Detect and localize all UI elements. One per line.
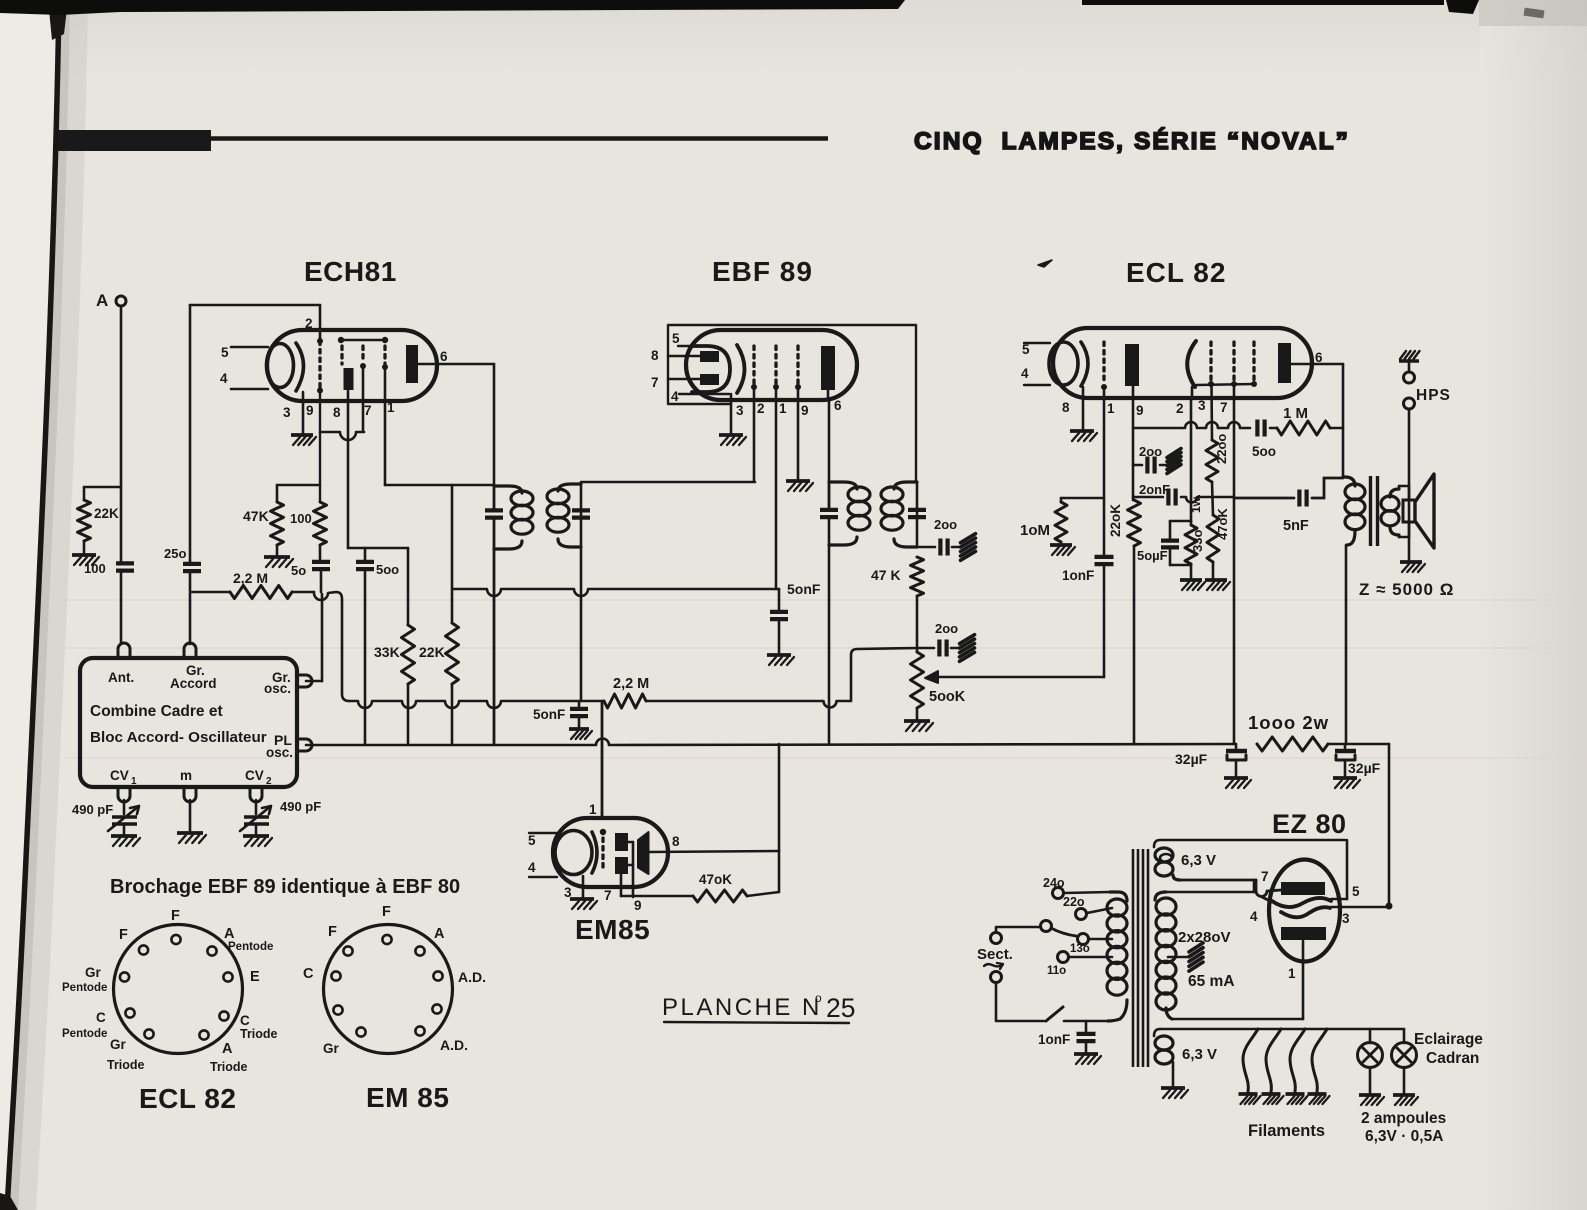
svg-text:3: 3 bbox=[1198, 398, 1206, 413]
capacitor 32µF (input) bbox=[1175, 744, 1247, 776]
antenna wire down bbox=[120, 306, 123, 564]
resistor 22K (osc grid leak) bbox=[419, 485, 459, 744]
tube EM85 label big bbox=[575, 914, 650, 945]
filament lead 4 bbox=[1312, 1029, 1327, 1092]
svg-text:2 ampoules: 2 ampoules bbox=[1361, 1110, 1446, 1127]
socket EM85 pins bbox=[331, 935, 442, 1037]
ECL82 pin 9 wire bbox=[1133, 386, 1144, 500]
svg-text:Cadran: Cadran bbox=[1426, 1050, 1479, 1067]
feedback line with caps 500 and 1M bbox=[1133, 422, 1250, 428]
ground below 22K bbox=[72, 555, 99, 565]
svg-text:E: E bbox=[250, 969, 260, 985]
wire 470K to node bbox=[747, 851, 779, 896]
svg-text:5oµF: 5oµF bbox=[1137, 548, 1168, 563]
svg-text:3: 3 bbox=[283, 405, 291, 420]
tap 110 bbox=[1047, 952, 1112, 978]
svg-text:25o: 25o bbox=[164, 546, 186, 561]
svg-text:22oo: 22oo bbox=[1214, 434, 1229, 464]
svg-text:1: 1 bbox=[779, 401, 787, 416]
resistor 470K (EM85) bbox=[693, 872, 747, 902]
svg-text:22K: 22K bbox=[419, 644, 445, 660]
ground filament 4 bbox=[1308, 1094, 1330, 1104]
EM85 pin 3 cathode wire bbox=[564, 876, 583, 900]
svg-text:1: 1 bbox=[1107, 401, 1115, 416]
tube EZ80 envelope bbox=[1269, 860, 1340, 962]
capacitor 1onF (coupling) bbox=[1062, 557, 1114, 677]
hatched ground 200 ECL82 bbox=[1167, 449, 1181, 474]
EZ80 pin 3 wire bbox=[1330, 907, 1389, 926]
svg-text:CV: CV bbox=[245, 768, 264, 783]
resistor 1000 2W bbox=[1248, 712, 1329, 751]
wire Gr osc to oscillator grid line bbox=[306, 594, 322, 681]
svg-text:32µF: 32µF bbox=[1175, 751, 1208, 767]
EM85 pin 4 stub bbox=[528, 860, 557, 877]
wire HT top to EZ80 plate bbox=[1166, 880, 1254, 892]
svg-text:5oo: 5oo bbox=[376, 562, 399, 577]
svg-text:5onF: 5onF bbox=[533, 707, 565, 722]
capacitor 500 (osc anode) bbox=[356, 548, 399, 744]
ECH81 grid g4 (pin1) bbox=[382, 346, 388, 370]
resistor 22K (antenna) bbox=[78, 487, 122, 553]
block terminal CV1 bbox=[118, 787, 130, 802]
wire IFT2 primary to B+ bus bbox=[828, 545, 831, 744]
ground below 5onF det bbox=[569, 729, 592, 739]
potentiometer 500K bbox=[911, 640, 966, 708]
trimmer 490pF at CV1 bbox=[72, 800, 139, 834]
wire 6,3V to EZ80 filament bbox=[1180, 880, 1281, 902]
svg-text:2oo: 2oo bbox=[934, 517, 957, 532]
svg-text:5oo: 5oo bbox=[1252, 444, 1276, 459]
capacitor 100 (antenna) bbox=[84, 561, 134, 644]
tap 240 bbox=[1043, 876, 1110, 899]
ECL82 triode anode plate bbox=[1125, 344, 1139, 386]
svg-text:7: 7 bbox=[604, 888, 612, 903]
svg-text:EM85: EM85 bbox=[575, 914, 650, 945]
block terminal CV2 bbox=[250, 787, 262, 802]
EM85 target wedge bbox=[638, 832, 680, 874]
ECL82 triode cathode bbox=[1049, 342, 1088, 386]
AVC bus right segment (grid line) bbox=[453, 589, 779, 596]
svg-text:2: 2 bbox=[305, 316, 313, 331]
svg-text:8: 8 bbox=[333, 405, 341, 420]
svg-text:9: 9 bbox=[306, 403, 314, 418]
ground at ECH81 pin 3 bbox=[291, 435, 316, 445]
output transformer core bbox=[1371, 476, 1378, 546]
svg-text:3: 3 bbox=[1342, 911, 1350, 926]
EBF89 pin 1 wire (AVC) bbox=[776, 387, 787, 589]
ECH81 cathode bbox=[267, 343, 304, 391]
ECH81 pin 8 wire down bbox=[333, 391, 348, 548]
IF transformer 2 secondary coil bbox=[881, 482, 917, 547]
HT winding 2x280V bbox=[1155, 892, 1231, 1019]
block terminal Gr osc bbox=[297, 675, 312, 687]
AVC bus 2 right of 2,2M bbox=[647, 648, 917, 707]
EZ80 pin 1 wire bbox=[1288, 941, 1303, 1019]
svg-text:F: F bbox=[119, 927, 128, 943]
filament lead 1 bbox=[1243, 1029, 1258, 1092]
EBF89 pin 9 wire bbox=[798, 387, 809, 479]
svg-text:4: 4 bbox=[220, 371, 228, 386]
wire 2,2M to EM85 grid with hop bbox=[601, 701, 604, 818]
ECL82 pin 7 wire (screen) bbox=[1220, 384, 1234, 744]
svg-text:5ooK: 5ooK bbox=[929, 689, 966, 705]
ECH81 pin 6 wire to osc coil bbox=[418, 349, 494, 486]
ground below speaker bbox=[1400, 562, 1425, 572]
capacitor 5nF bbox=[1234, 478, 1343, 534]
svg-text:Sect.: Sect. bbox=[977, 946, 1013, 963]
svg-text:6: 6 bbox=[440, 349, 448, 364]
svg-text:33K: 33K bbox=[374, 644, 400, 660]
capacitor 32µF (output) bbox=[1335, 744, 1381, 776]
ECH81 pin 9 label bbox=[306, 403, 314, 418]
tube EBF89 envelope bbox=[686, 330, 857, 400]
wire osc secondary right bbox=[580, 484, 583, 701]
svg-text:1: 1 bbox=[131, 776, 137, 787]
resistor 2200 bbox=[1206, 434, 1229, 482]
label Filaments bbox=[1248, 1122, 1325, 1140]
svg-text:F: F bbox=[382, 904, 391, 920]
label ECL 82 socket bbox=[139, 1083, 236, 1114]
ground lamp 2 bbox=[1393, 1095, 1418, 1105]
resistor 470K (screen divider) bbox=[1207, 482, 1230, 578]
label Eclairage Cadran bbox=[1414, 1031, 1483, 1067]
ECH81 pin 2 wire bbox=[190, 305, 320, 339]
svg-text:C: C bbox=[96, 1010, 106, 1025]
svg-text:1 M: 1 M bbox=[1283, 405, 1308, 422]
IF transformer 2 secondary cap bbox=[908, 482, 926, 547]
tube ECH81 envelope bbox=[267, 330, 437, 401]
capacitor 5o bbox=[291, 562, 330, 592]
svg-text:CV: CV bbox=[110, 768, 129, 783]
svg-text:PLANCHE N: PLANCHE N bbox=[662, 994, 822, 1021]
trimmer 490pF at CV2 bbox=[240, 799, 321, 834]
capacitor 250 bbox=[164, 546, 201, 644]
mains switch bbox=[996, 983, 1108, 1021]
ground below mains cap bbox=[1074, 1054, 1101, 1064]
speaker voice coil bbox=[1399, 486, 1415, 537]
ground below 6,3V winding bbox=[1161, 1088, 1188, 1098]
EZ80 pin 7 label bbox=[1261, 869, 1269, 884]
tube EBF89 label bbox=[712, 256, 813, 287]
ECL82 pentode grid g1 bbox=[1208, 342, 1214, 387]
output transformer primary bbox=[1343, 477, 1365, 744]
svg-text:m: m bbox=[180, 768, 192, 783]
capacitor 5onF (AVC) bbox=[770, 581, 821, 653]
svg-text:Gr: Gr bbox=[323, 1041, 340, 1056]
EM85 anode plates bbox=[615, 833, 628, 874]
EM85 pin 5 stub bbox=[528, 833, 557, 848]
EZ80 anode plate 2 bbox=[1281, 927, 1326, 940]
title CINQ LAMPES SERIE NOVAL bbox=[914, 127, 1350, 155]
block labels bbox=[90, 663, 293, 787]
svg-text:HPS: HPS bbox=[1416, 387, 1451, 404]
tube EZ80 label bbox=[1272, 809, 1347, 839]
potentiometer wiper arrow bbox=[925, 671, 1104, 683]
svg-text:4: 4 bbox=[528, 860, 536, 875]
svg-text:100: 100 bbox=[290, 511, 312, 526]
ground below 47K bbox=[264, 557, 293, 567]
svg-text:A: A bbox=[222, 1041, 233, 1057]
ground below 32µF input bbox=[1224, 778, 1251, 788]
svg-text:5onF: 5onF bbox=[787, 581, 821, 597]
svg-text:490 pF: 490 pF bbox=[280, 799, 321, 814]
socket ECL82 pin labels bbox=[62, 908, 278, 1074]
svg-text:9: 9 bbox=[1136, 403, 1144, 418]
resistor 100 (osc grid) bbox=[290, 390, 327, 561]
ECL82 pin 4 stub bbox=[1021, 366, 1050, 385]
svg-text:A.D.: A.D. bbox=[458, 969, 486, 985]
output transformer secondary bbox=[1381, 486, 1399, 537]
svg-text:33o: 33o bbox=[1190, 530, 1205, 552]
ground below 500K bbox=[904, 708, 933, 731]
ECH81 grid g3 (pin7) bbox=[360, 346, 366, 369]
ground below 32µF output bbox=[1333, 778, 1360, 788]
ECH81 pin 4 stub bbox=[220, 371, 268, 389]
HPS terminals bbox=[1404, 361, 1451, 409]
ground below CV2 bbox=[243, 836, 272, 846]
svg-text:1onF: 1onF bbox=[1038, 1032, 1070, 1047]
svg-text:8: 8 bbox=[672, 834, 680, 849]
EM85 plates bracket to pin 9 bbox=[628, 842, 642, 913]
svg-text:Pentode: Pentode bbox=[62, 1028, 107, 1040]
ECL82 pentode grid g3 bbox=[1251, 342, 1257, 387]
svg-text:osc.: osc. bbox=[266, 745, 293, 760]
ECH81 grid top strap bbox=[338, 337, 388, 343]
svg-text:2,2 M: 2,2 M bbox=[233, 570, 268, 586]
svg-text:o: o bbox=[815, 991, 822, 1005]
svg-text:1: 1 bbox=[589, 802, 597, 817]
label 2 ampoules bbox=[1361, 1110, 1446, 1145]
svg-text:5nF: 5nF bbox=[1283, 518, 1309, 534]
svg-text:Pentode: Pentode bbox=[228, 941, 273, 953]
osc transformer primary coil bbox=[494, 486, 533, 549]
svg-text:Combine Cadre et: Combine Cadre et bbox=[90, 703, 223, 720]
socket ECL82 circle bbox=[114, 925, 243, 1054]
resistor 33K bbox=[374, 548, 415, 744]
svg-text:13o: 13o bbox=[1070, 943, 1090, 955]
resistor 22oK bbox=[1108, 500, 1141, 744]
svg-text:6,3V · 0,5A: 6,3V · 0,5A bbox=[1365, 1128, 1443, 1145]
svg-text:8: 8 bbox=[1062, 400, 1070, 415]
svg-text:A: A bbox=[224, 926, 235, 942]
svg-text:ECH81: ECH81 bbox=[304, 256, 397, 287]
ground below 5onF AVC bbox=[767, 655, 794, 665]
svg-text:1onF: 1onF bbox=[1062, 568, 1094, 583]
ground below 1oM bbox=[1050, 545, 1075, 555]
svg-text:A: A bbox=[96, 291, 108, 310]
tube ECH81 label bbox=[304, 256, 397, 287]
resistor 1M bbox=[1277, 405, 1343, 435]
svg-text:9: 9 bbox=[801, 403, 809, 418]
EBF89 grid g2 bbox=[773, 346, 779, 390]
svg-text:EM 85: EM 85 bbox=[366, 1082, 449, 1113]
resistor 1oM bbox=[1020, 498, 1104, 542]
svg-text:ECL 82: ECL 82 bbox=[139, 1083, 236, 1114]
wire pin8 jog bbox=[348, 547, 408, 550]
ECH81 pin 5 stub bbox=[221, 345, 268, 360]
Sect terminal upper bbox=[977, 927, 1040, 963]
mains primary winding bbox=[1107, 892, 1127, 1021]
ECH81 triode anode plate bbox=[406, 345, 418, 383]
ECL82 pentode cathode arc bbox=[1187, 341, 1196, 387]
wire pin7 to 470K bbox=[621, 895, 693, 898]
block terminal m bbox=[184, 787, 196, 802]
svg-text:4: 4 bbox=[671, 389, 679, 404]
header rule bar bbox=[58, 130, 828, 151]
B+ wire right segment bbox=[1328, 744, 1393, 910]
ground below 470K bbox=[1205, 580, 1230, 590]
svg-text:Z ≈ 5000 Ω: Z ≈ 5000 Ω bbox=[1359, 580, 1454, 599]
ECL82 pin 2 wire bbox=[1176, 387, 1192, 521]
svg-text:5o: 5o bbox=[291, 563, 306, 578]
osc transformer secondary cap bbox=[572, 510, 590, 517]
svg-text:1oM: 1oM bbox=[1020, 522, 1050, 539]
ECH81 pin 1 wire bbox=[385, 368, 494, 485]
svg-text:3: 3 bbox=[736, 403, 744, 418]
svg-text:Eclairage: Eclairage bbox=[1414, 1031, 1483, 1048]
osc transformer secondary coil bbox=[547, 484, 581, 547]
svg-text:F: F bbox=[328, 924, 337, 940]
svg-text:Brochage EBF 89 identique à EB: Brochage EBF 89 identique à EBF 80 bbox=[110, 876, 460, 898]
block terminal PL osc bbox=[297, 739, 312, 751]
ECL82 pin 5 stub bbox=[1022, 342, 1050, 357]
ECL82 pin 1 wire bbox=[1104, 387, 1115, 556]
ground at EBF89 pin 9 bbox=[786, 481, 813, 491]
svg-text:F: F bbox=[171, 908, 180, 924]
svg-text:2oo: 2oo bbox=[1139, 444, 1162, 459]
tube ECL82 label bbox=[1126, 257, 1226, 288]
filament lead 2 bbox=[1266, 1029, 1281, 1092]
svg-text:8: 8 bbox=[651, 348, 659, 363]
svg-text:65 mA: 65 mA bbox=[1188, 973, 1235, 990]
EBF89 pin 6 wire down bbox=[828, 390, 829, 507]
speaker cone bbox=[1415, 474, 1434, 548]
label Z = 5000 ohms bbox=[1359, 580, 1454, 599]
svg-text:22oK: 22oK bbox=[1108, 504, 1123, 537]
svg-text:Pentode: Pentode bbox=[62, 982, 107, 994]
svg-text:EBF 89: EBF 89 bbox=[712, 256, 813, 287]
svg-text:7: 7 bbox=[1261, 869, 1269, 884]
tap 220 bbox=[1063, 895, 1112, 920]
ECL82 pentode grid g2 bbox=[1231, 342, 1237, 387]
wire HT bottom to EZ80 pin 1 bbox=[1172, 1018, 1303, 1021]
svg-text:1ooo 2w: 1ooo 2w bbox=[1248, 712, 1329, 733]
svg-text:22K: 22K bbox=[94, 506, 119, 521]
ECH81 heptode anode plate bbox=[344, 368, 354, 390]
ECL82 pin 6 anode wire bbox=[1291, 364, 1343, 477]
ground filament 3 bbox=[1286, 1094, 1308, 1104]
filament lead 3 bbox=[1290, 1029, 1305, 1092]
EM85 grid (pin 1) bbox=[589, 802, 606, 871]
svg-text:22o: 22o bbox=[1063, 895, 1085, 909]
EM85 cathode bbox=[555, 831, 597, 875]
svg-text:1: 1 bbox=[1288, 966, 1296, 981]
svg-text:5: 5 bbox=[1022, 342, 1030, 357]
svg-text:Filaments: Filaments bbox=[1248, 1122, 1325, 1140]
capacitor 500 (feedback) bbox=[1252, 420, 1277, 460]
svg-text:5: 5 bbox=[528, 833, 536, 848]
stray ink mark bbox=[1038, 260, 1052, 267]
wire node to B+ bus bbox=[778, 744, 781, 851]
svg-text:11o: 11o bbox=[1047, 965, 1066, 977]
svg-text:C: C bbox=[303, 966, 314, 982]
svg-text:EZ 80: EZ 80 bbox=[1272, 809, 1347, 839]
svg-text:47 K: 47 K bbox=[871, 567, 901, 583]
svg-text:9: 9 bbox=[634, 898, 642, 913]
svg-text:Gr: Gr bbox=[85, 965, 102, 980]
socket ECL82 pins bbox=[120, 935, 233, 1040]
svg-text:6,3 V: 6,3 V bbox=[1182, 1046, 1217, 1063]
block terminal Gr Accord bbox=[184, 643, 196, 658]
svg-text:2: 2 bbox=[1176, 401, 1184, 416]
resistor 47K (detector) bbox=[871, 557, 924, 640]
resistor 47K (osc) bbox=[243, 485, 320, 555]
ECL82 pentode anode plate bbox=[1278, 343, 1323, 383]
svg-text:ECL 82: ECL 82 bbox=[1126, 257, 1226, 288]
IF transformer 2 primary coil bbox=[829, 482, 870, 545]
svg-text:7: 7 bbox=[651, 375, 659, 390]
HPS wire to ground bbox=[1408, 409, 1411, 560]
EM85 target wire bbox=[649, 851, 779, 852]
wire m to ground bbox=[189, 800, 192, 831]
HT center tap hatched ground bbox=[1168, 943, 1235, 990]
EZ80 filament arcs bbox=[1272, 898, 1331, 917]
EZ80 pin 4 label bbox=[1250, 909, 1258, 924]
capacitor 200 (triode anode) with ground bbox=[1133, 444, 1166, 474]
ground filament 2 bbox=[1262, 1094, 1284, 1104]
resistor 2,2M (AVC left) bbox=[192, 570, 292, 599]
capacitor 1onF (mains) bbox=[1038, 1021, 1096, 1052]
svg-text:5: 5 bbox=[1352, 884, 1360, 899]
svg-text:Triode: Triode bbox=[240, 1027, 278, 1041]
ground lamp 1 bbox=[1359, 1095, 1384, 1105]
wire grid line to EBF89 pin2 bbox=[581, 481, 755, 484]
EBF89 pin 2 wire bbox=[754, 387, 765, 481]
svg-text:2,2 M: 2,2 M bbox=[613, 676, 649, 692]
label EM 85 socket bbox=[366, 1082, 449, 1113]
svg-text:4: 4 bbox=[1021, 366, 1029, 381]
svg-text:Triode: Triode bbox=[107, 1058, 145, 1072]
svg-text:2oo: 2oo bbox=[935, 621, 958, 636]
dial lamp 1 bbox=[1358, 1029, 1383, 1093]
svg-text:6: 6 bbox=[834, 398, 842, 413]
ECL82 pin 3 wire bbox=[1198, 384, 1212, 440]
EBF89 pin 5 stub bbox=[672, 331, 692, 346]
svg-text:7: 7 bbox=[364, 403, 372, 418]
svg-text:47oK: 47oK bbox=[699, 872, 732, 887]
resistor 2,2M (EM85 grid) bbox=[604, 676, 649, 708]
label PLANCHE No 25 bbox=[662, 991, 855, 1023]
svg-text:osc.: osc. bbox=[264, 681, 291, 696]
tube ECL82 envelope bbox=[1053, 328, 1312, 398]
resistor 330 1W (cathode) bbox=[1185, 494, 1205, 578]
block terminal Ant bbox=[118, 643, 130, 658]
ground at EBF89 pin 3 bbox=[719, 435, 746, 445]
EBF89 diode plate 2 bbox=[651, 374, 719, 390]
EBF89 pin 4 stub bbox=[671, 389, 729, 404]
EBF89 diode plate 1 bbox=[651, 348, 719, 363]
block Combine Cadre et Bloc Accord-Oscillateur bbox=[80, 658, 297, 787]
svg-text:32µF: 32µF bbox=[1348, 760, 1381, 776]
HT bus B+ (PL osc line) bbox=[306, 739, 1236, 746]
svg-text:A: A bbox=[434, 926, 445, 942]
svg-text:24o: 24o bbox=[1043, 876, 1065, 890]
wire Gr Accord up to grid line bbox=[189, 305, 192, 563]
capacitor 5oµF (cathode bypass) bbox=[1137, 521, 1191, 565]
svg-text:C: C bbox=[240, 1013, 250, 1028]
capacitor 200 (det top) with ground bbox=[917, 517, 959, 556]
socket EM85 circle bbox=[324, 925, 453, 1054]
